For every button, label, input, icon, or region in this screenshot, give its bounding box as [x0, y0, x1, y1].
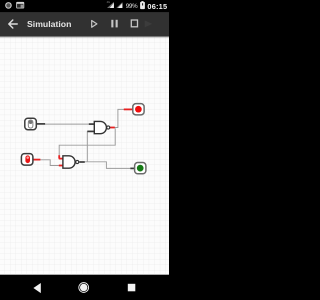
svg-text:Simulation: Simulation: [27, 19, 71, 29]
svg-text:4G: 4G: [107, 0, 110, 4]
svg-text:99%: 99%: [126, 3, 138, 10]
svg-text:06:15: 06:15: [147, 2, 167, 11]
